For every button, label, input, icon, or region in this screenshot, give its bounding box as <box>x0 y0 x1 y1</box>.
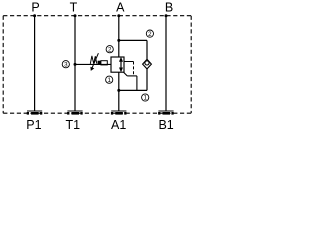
adjustment arrow <box>90 53 98 71</box>
svg-text:B: B <box>165 0 173 14</box>
svg-text:2: 2 <box>148 31 152 38</box>
wire A line lower <box>118 72 120 111</box>
svg-text:1: 1 <box>107 77 111 84</box>
drain line horizontal <box>127 75 137 77</box>
port number 2 (valve top) <box>106 46 113 54</box>
node P top <box>33 14 36 17</box>
check valve C1 poppet <box>143 59 152 69</box>
adjuster screw (black) <box>98 61 101 65</box>
wire T to valve spring <box>75 63 111 65</box>
wire check to A (bottom) <box>119 89 147 91</box>
wire B line <box>165 16 167 111</box>
wire check upper <box>146 40 148 59</box>
port number 1 (check bottom) <box>142 94 149 102</box>
node A lower <box>117 89 120 92</box>
svg-text:A1: A1 <box>111 118 126 132</box>
drain line vertical <box>136 76 138 91</box>
wire T line <box>74 16 76 111</box>
svg-text:P1: P1 <box>26 118 41 132</box>
valve flow arrow <box>119 57 123 73</box>
svg-text:3: 3 <box>64 61 68 68</box>
pilot line (dashed) <box>124 61 134 63</box>
port number 3 (spring drain) <box>62 61 69 69</box>
spring <box>90 56 97 64</box>
drain line diagonal <box>124 72 128 76</box>
svg-text:A: A <box>116 0 125 14</box>
port symbol T1 <box>67 111 83 115</box>
svg-text:B1: B1 <box>158 118 173 132</box>
wire check lower <box>146 69 148 91</box>
port symbol A1 <box>111 111 127 115</box>
svg-text:1: 1 <box>143 95 147 102</box>
port number 2 (check top) <box>146 30 153 38</box>
node A branch <box>117 39 120 42</box>
svg-text:T1: T1 <box>66 118 81 132</box>
port number 1 (valve bottom) <box>106 76 113 84</box>
node B top <box>165 14 168 17</box>
svg-text:2: 2 <box>108 46 112 53</box>
wire branch A to check (top) <box>119 39 147 41</box>
node T branch <box>74 63 77 66</box>
node T top <box>74 14 77 17</box>
port symbol P1 <box>27 111 43 115</box>
valve U1 body <box>111 57 124 72</box>
wire P line <box>34 16 36 111</box>
svg-text:T: T <box>70 0 78 14</box>
svg-text:P: P <box>31 0 39 14</box>
node A top <box>117 14 120 17</box>
manifold envelope (dashed border) <box>3 16 191 114</box>
wire A line upper <box>118 16 120 57</box>
adjuster barrel <box>101 61 107 65</box>
port symbol B1 <box>158 111 174 115</box>
